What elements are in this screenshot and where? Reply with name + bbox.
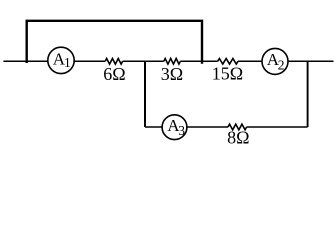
- svg-text:2: 2: [278, 57, 285, 72]
- svg-text:8Ω: 8Ω: [227, 127, 249, 147]
- svg-text:15Ω: 15Ω: [212, 64, 243, 84]
- svg-text:1: 1: [64, 55, 71, 70]
- svg-text:3: 3: [178, 123, 185, 138]
- svg-text:3Ω: 3Ω: [161, 64, 183, 84]
- svg-text:6Ω: 6Ω: [103, 64, 125, 84]
